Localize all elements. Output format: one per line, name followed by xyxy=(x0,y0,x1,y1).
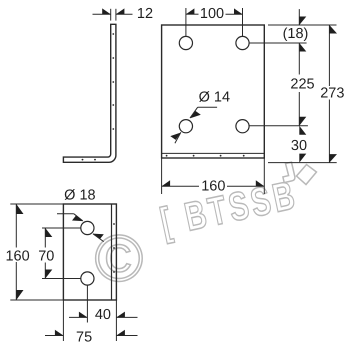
front view bend line xyxy=(162,152,265,154)
dimension 225 xyxy=(298,43,300,126)
bottom view bend line xyxy=(111,204,113,300)
dimension (18) xyxy=(298,9,300,25)
watermark diamond xyxy=(297,165,317,185)
svg-text:©: © xyxy=(95,221,144,295)
svg-text:160: 160 xyxy=(201,178,225,194)
extension line right edge bottom xyxy=(115,300,117,341)
svg-text:70: 70 xyxy=(38,249,54,265)
svg-text:225: 225 xyxy=(290,76,314,92)
watermark copyright symbol xyxy=(95,221,144,295)
svg-text:273: 273 xyxy=(320,86,344,102)
svg-text:40: 40 xyxy=(95,307,111,323)
dimension 12 xyxy=(93,9,133,21)
extension line hole center bottom xyxy=(86,285,88,322)
watermark small bracket xyxy=(283,162,295,182)
extension line plate bottom left xyxy=(161,159,163,195)
hole bottom-right xyxy=(236,120,249,133)
extension line bottom hole right xyxy=(249,125,308,127)
front view plate xyxy=(162,25,265,158)
side view L profile xyxy=(63,24,116,162)
dimension 70 xyxy=(42,228,81,279)
hole top-right xyxy=(236,36,249,49)
svg-text:30: 30 xyxy=(291,138,307,154)
bottom view plate xyxy=(63,204,116,300)
svg-text:Ø 14: Ø 14 xyxy=(199,90,230,106)
hole bottom-left xyxy=(179,120,192,133)
dimension 273 xyxy=(328,25,330,163)
hole bottom view lower xyxy=(81,272,94,285)
dimension 75 xyxy=(45,335,138,337)
svg-text:75: 75 xyxy=(76,329,92,345)
extension line left edge bottom xyxy=(62,300,64,341)
watermark BTSSB text xyxy=(157,173,302,245)
svg-text:(18): (18) xyxy=(283,26,309,42)
extension line plate bottom right xyxy=(263,159,265,195)
hole top-left xyxy=(179,36,192,49)
extension line bottom edge right xyxy=(268,162,337,164)
extension line top hole right xyxy=(249,42,307,44)
hole bottom view upper xyxy=(81,221,94,234)
bottom view centerline dots xyxy=(113,223,115,273)
dimension 30 xyxy=(299,126,306,163)
front view bend centerline dots xyxy=(166,155,245,157)
svg-text:Ø 18: Ø 18 xyxy=(64,187,95,203)
side view centerline dots vertical xyxy=(112,33,114,130)
dimension 160 front xyxy=(162,185,265,187)
svg-text:12: 12 xyxy=(137,6,153,22)
dimension 40 xyxy=(69,316,138,318)
dimension 160 bottom view xyxy=(10,204,63,300)
side view centerline dots horizontal xyxy=(82,159,96,161)
svg-text:100: 100 xyxy=(200,6,224,22)
extension line top edge right xyxy=(268,24,337,26)
dimension 100 xyxy=(186,8,243,36)
svg-text:160: 160 xyxy=(5,248,29,264)
